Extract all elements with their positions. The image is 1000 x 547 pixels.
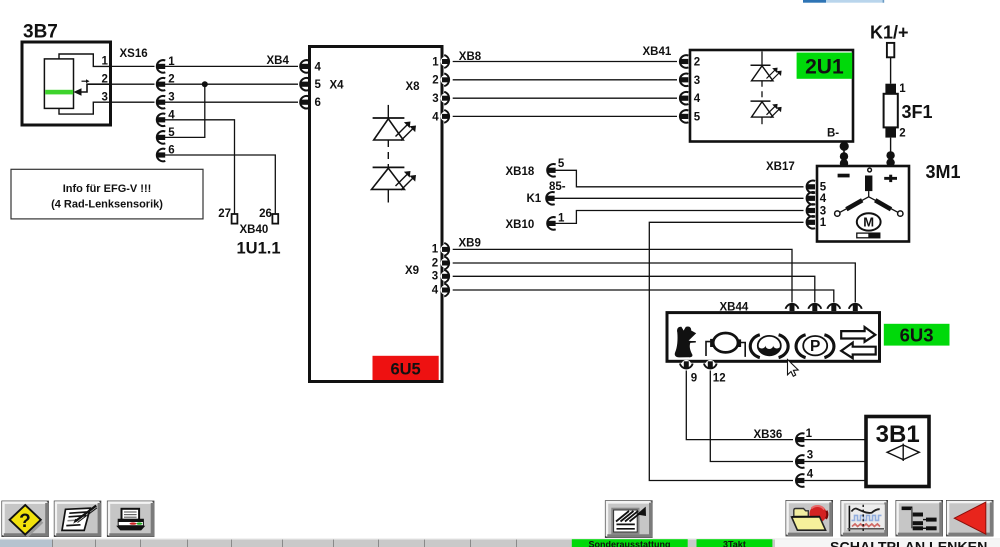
junction node on XS16.2 wire [202,81,208,87]
connector XB8 pin 4 [441,110,451,123]
svg-text:Sonderausstattung: Sonderausstattung [588,540,670,547]
X8 pin numbers 1-4 [432,56,439,123]
XS16 pin numbers [168,56,175,157]
status bar separators [53,540,517,547]
label 1U1.1 [237,240,281,258]
label K1/+ [870,23,909,43]
wire 6U3.9 to XB36.1 [686,371,793,440]
green status button 2 [697,539,773,547]
wire XS16.1 to XB4.4 [165,65,298,67]
toolbar button print [108,501,154,536]
svg-text:3F1: 3F1 [902,102,933,122]
svg-text:9: 9 [691,373,697,385]
dashed link between LEDs [387,140,389,167]
connector XS16 pin 1 [156,60,165,73]
connector XB17 pin 5 [806,181,815,194]
connector XB41 pin 4 [679,92,688,105]
svg-text:3M1: 3M1 [926,162,961,182]
LED D2 inside 2U1 [751,101,782,124]
svg-text:K1/+: K1/+ [870,23,909,43]
connector XB9 pin 3 [441,270,451,283]
label XB44 [720,302,749,314]
wire XB36.1 to 3B1 [804,439,866,441]
svg-text:SCHALTPLAN LENKEN: SCHALTPLAN LENKEN [830,540,987,547]
svg-text:12: 12 [713,373,726,385]
label 3B1 [876,421,920,448]
svg-text:1: 1 [899,83,906,95]
wire XB9.2 to XB44.4 [453,263,856,303]
connector XS16 pin 5 [156,131,165,144]
wire XS16.5 link up to node on pin2 wire [165,84,205,137]
label XB9 [459,237,481,249]
wire XB8.3 to XB41.4 [453,97,677,99]
connector XB4 pin 6 [300,96,309,109]
svg-text:2: 2 [899,127,905,139]
label 3B7 [23,22,58,43]
svg-text:XS16: XS16 [120,48,148,60]
svg-text:3Takt: 3Takt [723,540,746,547]
seat switch icon inside 6U3 [675,325,696,358]
toolbar button protocol [606,501,653,538]
svg-text:XB17: XB17 [766,161,795,173]
wire XS16.3 to XB4.6 [165,101,298,103]
UI fragment: partial blue progress bar at top edge [803,0,884,3]
svg-text:3: 3 [807,450,813,462]
minus terminal mark [838,174,850,178]
label XB40 [240,224,269,236]
label XB4 [267,55,290,67]
svg-text:2: 2 [432,257,438,269]
connector XB8 pin 3 [441,92,451,105]
connector XB9 pin 1 [441,243,451,256]
svg-text:X4: X4 [330,80,345,92]
indicator unit 2U1 box [690,50,853,142]
terminal 27 of XB40 [218,208,237,224]
XB44 pin numbers [789,314,859,326]
connector XB44 pin 2 [808,302,821,312]
label X9 [405,265,419,277]
label XS16 [120,48,148,60]
svg-text:XB40: XB40 [240,224,269,236]
brake wear icon inside 6U3 [750,335,788,358]
terminal 26 of XB40 [259,208,278,224]
green designator label 6U3 [884,324,950,346]
wire XB9.4 to XB44.3 [453,290,834,303]
XB41 pin numbers 2 3 4 5 [694,57,701,124]
connector XB18 pin 5 [506,158,565,178]
connector XS16 pin 3 [156,96,165,109]
wire XB8.2 to XB41.3 [453,79,677,81]
svg-text:XB10: XB10 [506,219,535,231]
svg-text:4: 4 [694,93,701,105]
toolbar button help [2,501,48,537]
connector XB36 pin 4 [795,468,813,487]
connector XB17 pin 4 [806,192,815,205]
status bar strip [0,538,1000,547]
connector XB4 pin 4 [300,60,309,73]
pump motor icon inside 6U3 [706,333,745,357]
connector XB44 pin 4 [849,302,862,312]
svg-text:P: P [810,338,820,355]
svg-text:1: 1 [806,428,813,440]
X9 pin numbers 1-4 [432,244,439,297]
label X4 [330,80,345,92]
connector XB44 pin 3 [827,302,840,312]
wire K1/+ to fuse 3F1 [890,57,892,83]
wire 3B7.2 to XS16.2 [111,83,155,85]
svg-text:6U5: 6U5 [390,361,420,379]
sensor 3B1 box [866,417,929,487]
toolbar button open-folder [786,501,832,536]
svg-text:1: 1 [820,217,827,229]
svg-text:6: 6 [315,97,321,109]
svg-text:6U3: 6U3 [900,324,934,345]
svg-text:Info für EFG-V !!!: Info für EFG-V !!! [63,183,152,195]
label XB36 [754,429,783,441]
svg-text:M: M [863,215,874,230]
wire XB18.5 to XB17.5 [555,170,803,187]
connector XB8 pin 2 [441,73,451,86]
connector XB9 pin 2 [441,257,451,270]
label B- [827,128,839,140]
B- terminal studs and wire to 3M1 minus [840,142,849,168]
wire K1 to XB17.4 [554,197,803,199]
connector 6U3 pin 9 [680,360,697,385]
connector XB10 pin 1 [506,212,566,231]
svg-text:?: ? [19,511,31,532]
svg-text:1: 1 [102,56,109,68]
svg-text:4: 4 [432,284,439,296]
svg-text:5: 5 [558,158,565,170]
svg-text:3: 3 [432,93,438,105]
connector XS16 pin 4 [156,114,165,127]
label XB17 [766,161,795,173]
motor 3M1 box [817,166,909,242]
control unit 6U5 box [310,47,443,382]
connector XB41 pin 5 [679,110,688,123]
svg-text:4: 4 [432,111,439,123]
display unit 6U3 box [667,313,880,362]
pin numbers 1 2 3 inside 3B7 [102,56,109,104]
plus terminal mark [884,175,897,182]
label XB41 [643,46,672,58]
svg-text:X9: X9 [405,265,419,277]
toolbar button curves [841,501,887,536]
svg-text:3: 3 [432,271,438,283]
red designator label 6U5 [373,356,439,380]
title text SCHALTPLAN LENKEN [830,540,987,547]
connector XB17 pin 1 [806,216,815,229]
toolbar button edit-notes [54,501,100,536]
component 3B7 steering sensor box [22,42,111,125]
wire XB9.3 to XB44.2 [453,276,815,303]
XB17 pin numbers [820,182,827,230]
svg-text:B-: B- [827,128,839,140]
label XB8 [459,51,482,63]
wire 3B7.1 to XS16.1 [111,65,155,67]
svg-text:27: 27 [218,208,231,220]
label 3M1 [926,162,961,182]
wire 6U3.12 to XB36.3 [710,371,793,462]
connector XB4 pin 5 [300,78,309,91]
svg-text:XB36: XB36 [754,429,783,441]
toolbar button tree [896,501,942,536]
svg-text:XB41: XB41 [643,46,672,58]
wire XB17.1 long run down to XB36.4 [649,222,803,480]
wire XS16.4 down to terminal 27 [165,120,235,214]
svg-text:5: 5 [820,182,827,194]
connector XB44 pin 1 [786,302,799,312]
potentiometer wiper arrow to pin 2 [74,79,112,95]
svg-text:1: 1 [558,212,565,224]
dashed link between 2U1 LEDs [761,81,763,101]
wire fuse to 3M1 plus with studs [886,138,894,167]
diamond sensor symbol inside 3B1 [887,444,919,461]
motor M circle [857,213,881,230]
svg-text:1: 1 [432,244,439,256]
connector XB9 pin 4 [441,284,451,297]
wire XB8.4 to XB41.5 [453,115,677,117]
potentiometer track to pin 3 [59,102,111,114]
svg-text:3B7: 3B7 [23,22,58,43]
svg-text:4: 4 [315,61,322,73]
terminal K1/+ [887,43,894,57]
svg-text:1U1.1: 1U1.1 [237,240,281,258]
svg-text:3: 3 [694,75,700,87]
wire XS16.6 down to terminal 26 [165,155,275,214]
potentiometer body inside 3B7 [44,59,73,109]
svg-text:XB9: XB9 [459,237,481,249]
svg-text:2: 2 [694,57,700,69]
wire XB36.3 to 3B1 [804,461,866,463]
label X8 [406,81,421,93]
svg-text:26: 26 [259,208,272,220]
wire XB8.1 to XB41.2 [453,61,677,63]
LED D1 inside 2U1 [751,51,782,81]
connector XB8 pin 1 [441,55,451,68]
mouse cursor [788,360,799,377]
connector XB36 pin 3 [795,450,813,468]
motor brush and winding symbol [835,168,903,216]
wire XB10.1 to XB17.3 [555,211,803,224]
svg-text:4: 4 [807,468,814,480]
direction arrows icon inside 6U3 [841,327,876,358]
label 3F1 [902,102,933,122]
parking brake icon inside 6U3 [796,335,834,358]
svg-text:4: 4 [820,193,827,205]
svg-text:K1: K1 [527,193,542,205]
connector XS16 pin 6 [156,149,165,162]
connector XB41 pin 2 [679,55,688,68]
wire XB36.4 to 3B1 [804,480,866,482]
fuse pin numbers [899,83,906,140]
svg-text:3B1: 3B1 [876,421,920,448]
toolbar button back [947,501,993,536]
wire XB9.1 to XB44.1 [453,249,792,302]
svg-text:XB4: XB4 [267,55,290,67]
svg-text:1: 1 [432,56,439,68]
svg-text:3: 3 [102,91,108,103]
connector XB41 pin 3 [679,74,688,87]
green wiper position line [45,90,73,95]
X4 pin numbers 4 5 6 [315,61,322,109]
svg-text:2: 2 [432,75,438,87]
fuse 3F1 [884,84,898,138]
LED D1 inside 6U5 [373,105,416,141]
svg-text:5: 5 [694,111,701,123]
wire XS16.2 to XB4.5 [165,83,298,85]
potentiometer track to pin 1 [59,54,111,66]
green status button 1 [572,539,688,547]
connector XB36 pin 1 [795,428,812,446]
svg-text:(4 Rad-Lenksensorik): (4 Rad-Lenksensorik) [51,199,163,211]
LED D2 inside 6U5 [372,167,417,202]
motor polarity bar [857,233,880,238]
wire 3B7.3 to XS16.3 [111,101,155,103]
svg-text:2U1: 2U1 [805,56,844,79]
connector K1 85- [527,181,566,205]
info note box [11,169,203,219]
connector 6U3 pin 12 [704,360,726,385]
svg-text:XB18: XB18 [506,166,535,178]
svg-text:X8: X8 [406,81,421,93]
svg-text:5: 5 [315,79,322,91]
svg-text:85-: 85- [549,181,566,193]
green designator label 2U1 [797,53,853,79]
connector XB17 pin 3 [806,204,815,217]
svg-text:2: 2 [102,73,108,85]
svg-text:3: 3 [820,205,826,217]
connector XS16 pin 2 [156,78,165,91]
